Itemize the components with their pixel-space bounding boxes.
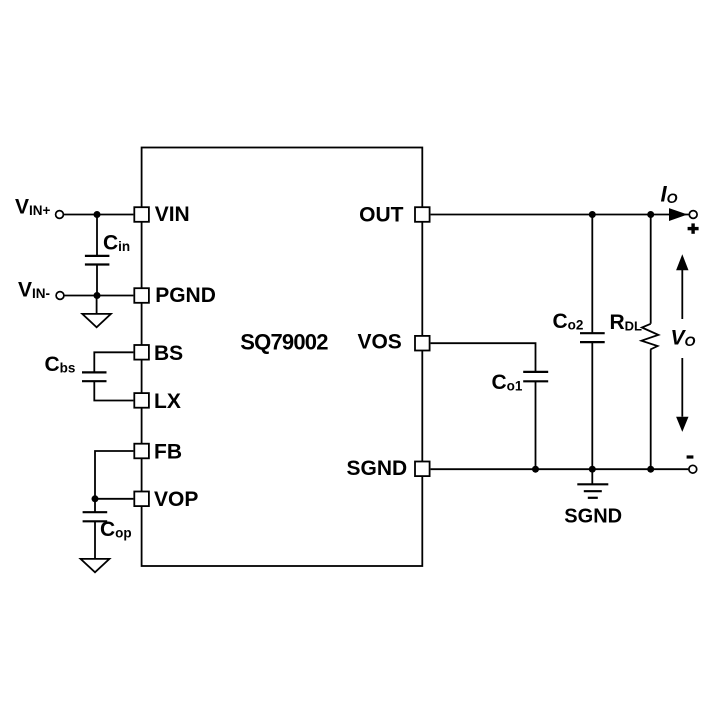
svg-text:SGND: SGND	[347, 457, 408, 480]
capacitor Cop	[83, 512, 108, 521]
ground power symbol below Cop	[81, 559, 110, 572]
IC U1 body SQ79002	[142, 148, 423, 567]
resistor RDL zigzag	[642, 324, 659, 350]
svg-text:FB: FB	[154, 441, 182, 464]
wire Cbs to LX pin	[94, 381, 133, 400]
arrowhead Vo up	[676, 254, 688, 270]
pin PGND square	[134, 288, 149, 303]
wire Cop bottom stub	[94, 521, 96, 559]
capacitor Cbs	[82, 372, 107, 381]
pin VOS square	[415, 336, 430, 351]
wire Co2 bottom stub	[591, 342, 593, 469]
wire VIN+ terminal to VIN pin	[63, 214, 133, 216]
wire earth ground stub	[591, 469, 593, 484]
pin SGND square	[415, 462, 430, 477]
svg-text:VOP: VOP	[154, 488, 198, 511]
node junction SGND/Co1	[532, 466, 539, 473]
terminal VIN- circle	[56, 292, 64, 300]
svg-text:OUT: OUT	[359, 203, 404, 226]
pin FB square	[134, 444, 149, 459]
ground earth symbol SGND	[577, 484, 608, 498]
svg-text:VIN: VIN	[155, 203, 190, 226]
wire ground stub at PGND	[96, 296, 98, 314]
pin BS square	[134, 345, 149, 360]
terminal VIN+ circle	[56, 211, 64, 219]
svg-text:SGND: SGND	[564, 505, 622, 527]
pin OUT square	[415, 207, 430, 222]
sign minus at negative terminal	[687, 455, 694, 458]
arrow Vo up	[681, 270, 683, 319]
terminal output + circle	[689, 211, 697, 219]
capacitor Cin	[85, 256, 110, 265]
node junction PGND/Cin	[94, 292, 101, 299]
wire Cin bottom stub	[96, 265, 98, 296]
node junction VIN/Cin	[94, 211, 101, 218]
capacitor Co1	[523, 372, 548, 381]
svg-text:VOS: VOS	[357, 330, 401, 353]
wire RDL bottom stub	[650, 350, 652, 470]
wire BS pin to Cbs	[94, 352, 133, 372]
pin LX square	[134, 393, 149, 408]
arrowhead Io output current	[669, 208, 688, 221]
node junction OUT/Co2	[589, 211, 596, 218]
wire VOS pin to Co1	[431, 343, 536, 372]
wire VIN- terminal to PGND pin	[64, 295, 133, 297]
wire OUT pin to output terminal	[431, 214, 690, 216]
wire RDL top stub	[650, 215, 652, 324]
wire Cop top stub	[94, 499, 96, 512]
wire node to VOP pin	[95, 498, 133, 500]
svg-text:LX: LX	[154, 390, 181, 413]
wire Cin top stub	[96, 215, 98, 256]
wire SGND pin to negative terminal	[431, 468, 689, 470]
svg-text:BS: BS	[154, 342, 183, 365]
wire Co2 top stub	[591, 215, 593, 334]
wire FB pin to VOP node	[95, 451, 133, 499]
arrow Vo down line	[681, 358, 683, 417]
sign plus at positive terminal	[688, 227, 699, 230]
node junction FB/VOP	[92, 495, 99, 502]
pin VOP square	[134, 492, 149, 507]
node junction SGND/Co2	[589, 466, 596, 473]
terminal output - circle	[689, 465, 697, 473]
node junction OUT/RDL	[647, 211, 654, 218]
pin VIN square	[134, 207, 149, 222]
arrowhead Vo down	[676, 417, 688, 432]
ground power symbol below PGND	[82, 314, 111, 327]
capacitor Co2	[580, 333, 605, 342]
node junction SGND/RDL	[647, 466, 654, 473]
svg-text:SQ79002: SQ79002	[240, 330, 328, 355]
svg-text:PGND: PGND	[155, 284, 216, 307]
wire Co1 bottom stub	[535, 381, 537, 469]
